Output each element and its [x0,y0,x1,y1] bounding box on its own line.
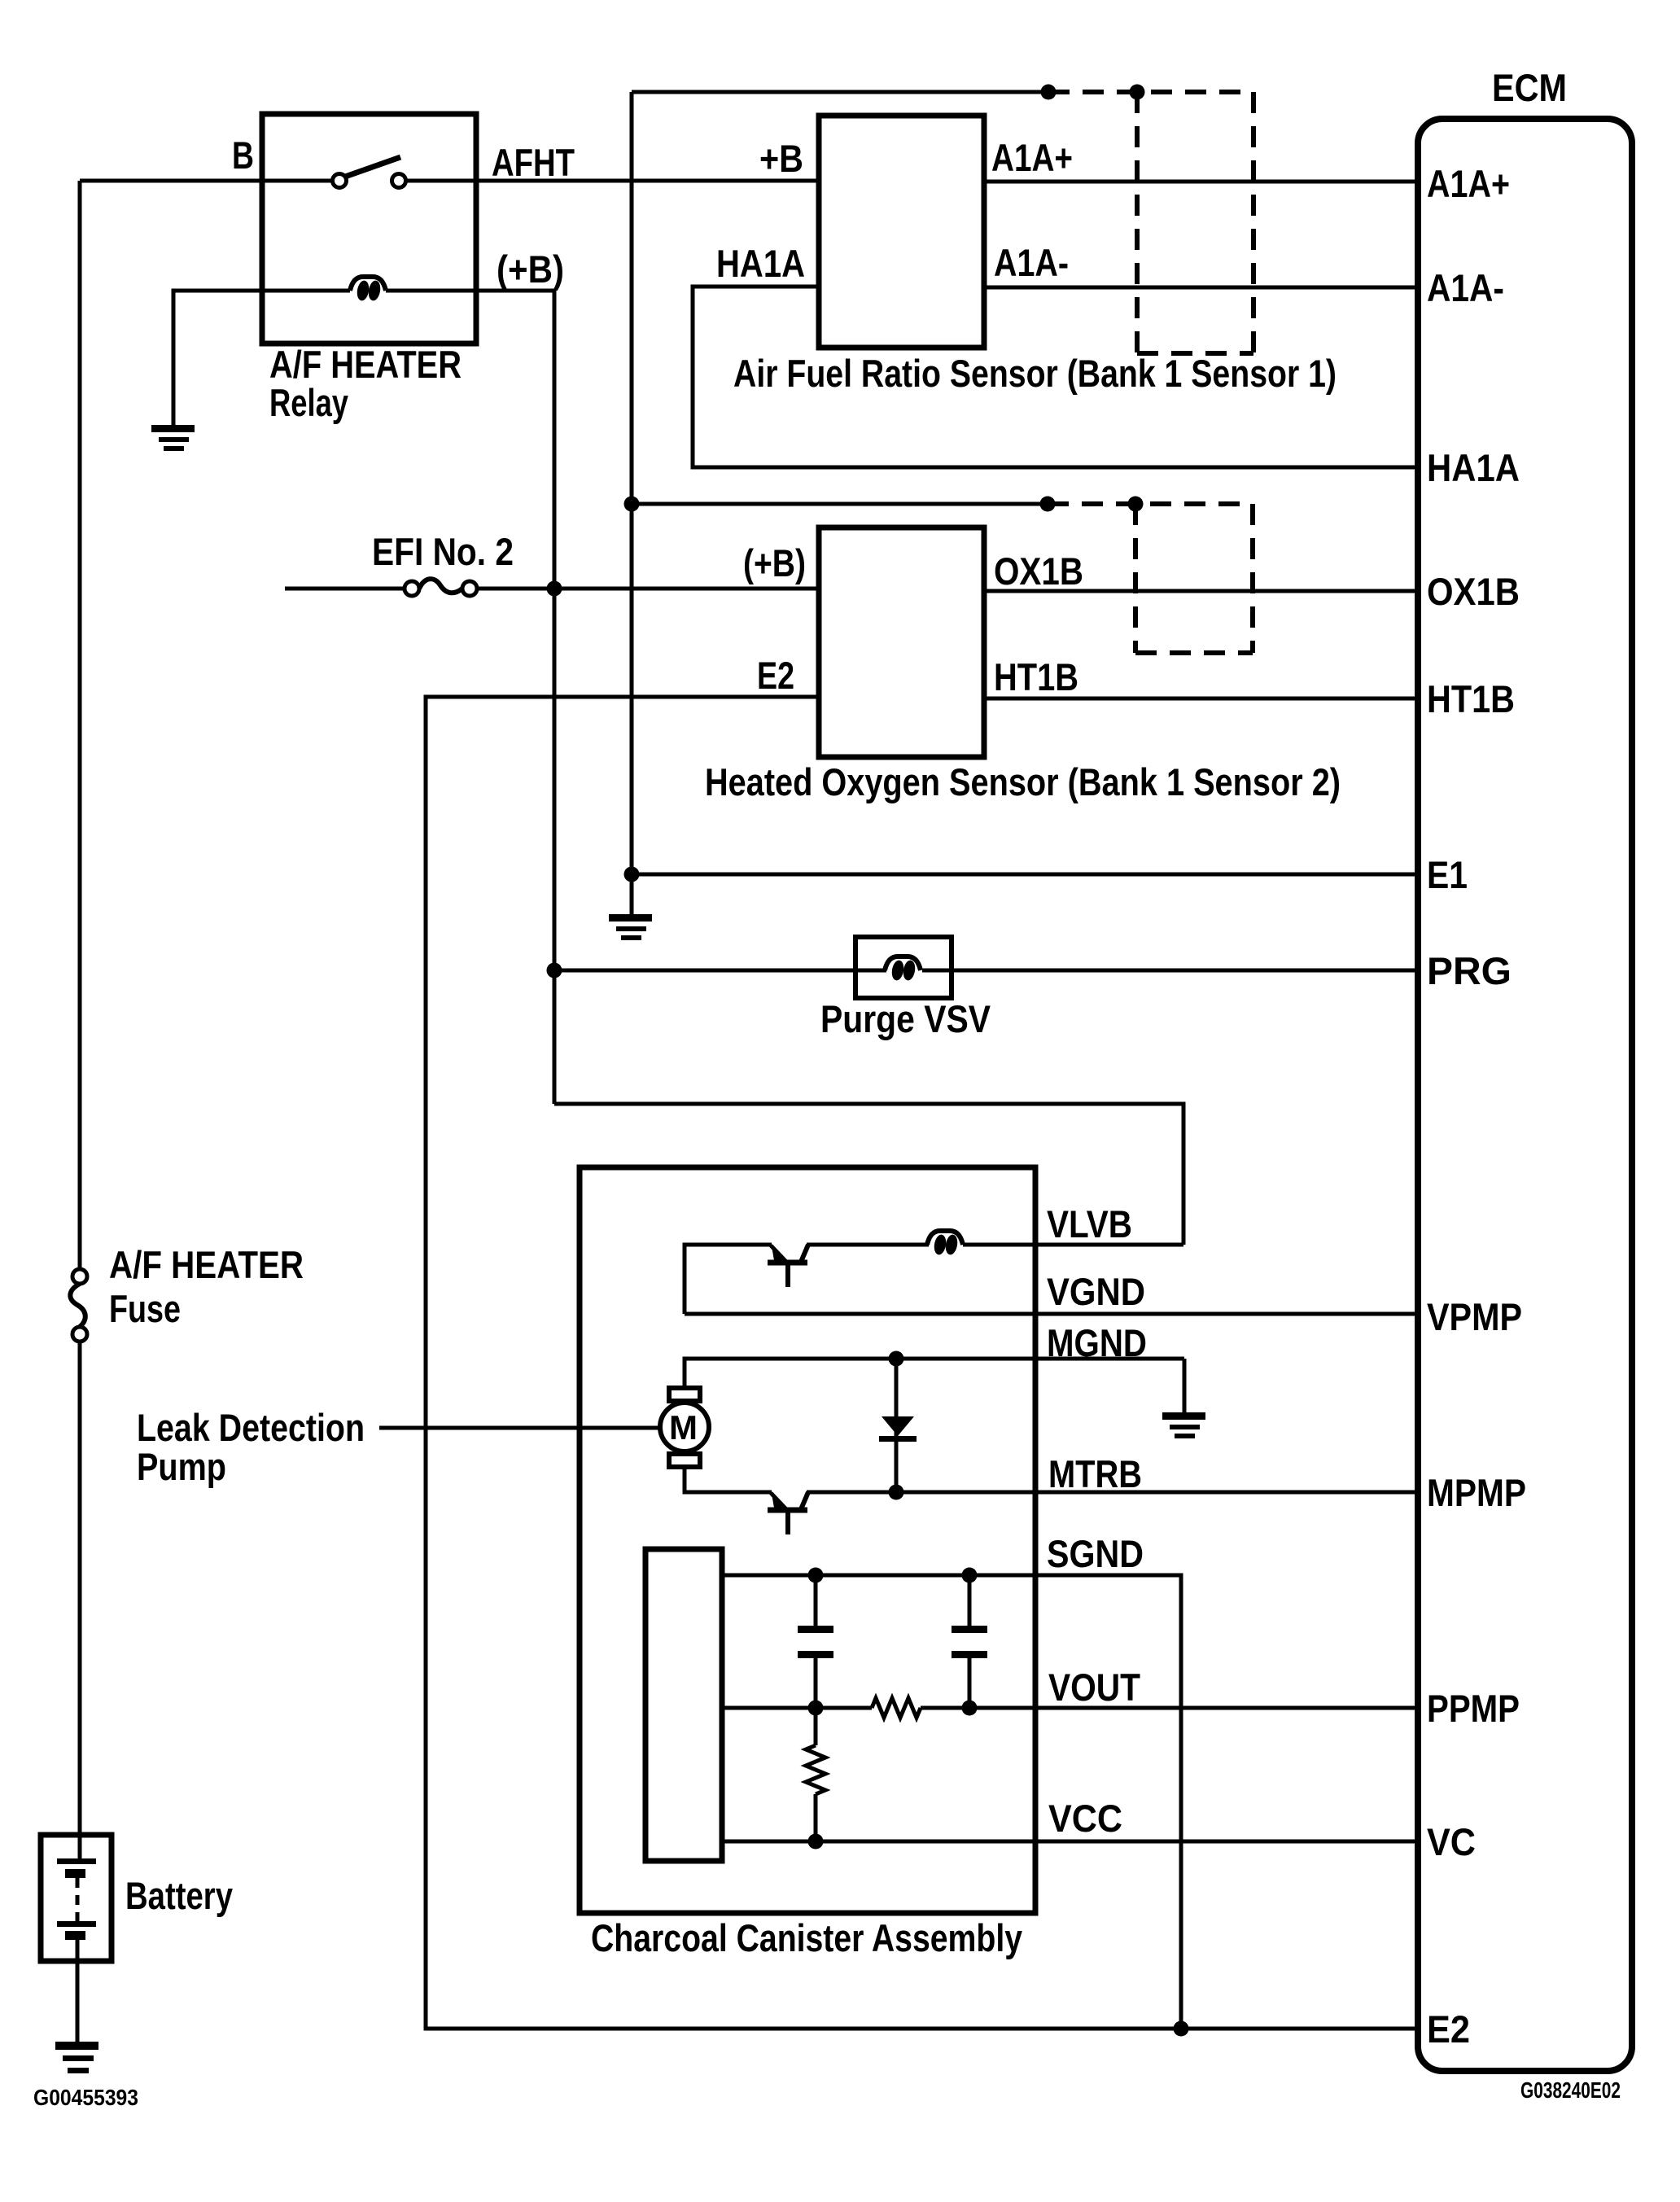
svg-text:HT1B: HT1B [994,655,1078,698]
svg-text:(+B): (+B) [743,541,806,584]
resistor R1 series [872,1698,921,1718]
svg-text:OX1B: OX1B [994,549,1083,593]
svg-text:AFHT: AFHT [492,141,575,184]
wire A1A+ to ECM [984,180,1420,184]
junction dot [808,1834,824,1850]
svg-text:HA1A: HA1A [1427,446,1520,489]
relay switch contacts [262,157,476,188]
wire VOUT [722,1706,872,1710]
svg-text:Purge VSV: Purge VSV [820,997,991,1040]
svg-text:Heated Oxygen Sensor (Bank 1 S: Heated Oxygen Sensor (Bank 1 Sensor 2) [705,760,1341,803]
wire HA1A to ECM [693,287,1420,467]
sensor pressure sensor block [645,1549,722,1861]
shield box sensor 1 (dashed) [1137,92,1253,353]
svg-text:Relay: Relay [269,381,348,424]
svg-text:Fuse: Fuse [109,1287,181,1330]
relay A/F HEATER Relay box [262,114,476,344]
junction dot [1128,497,1144,512]
junction dot PRG tee [547,963,562,978]
ECM pin labels [1427,162,1526,2051]
wire shield ground rail [630,92,634,916]
wire coil to transistor [807,1243,929,1247]
svg-text:Leak Detection: Leak Detection [137,1406,365,1449]
wire B from battery rail to relay [80,179,262,183]
wire shield 2 dashed [1048,501,1253,506]
wire HT1B to ECM [984,697,1420,701]
svg-text:Pump: Pump [137,1445,226,1488]
svg-text:OX1B: OX1B [1427,570,1520,613]
svg-text:PRG: PRG [1427,949,1512,992]
junction dot [962,1568,978,1583]
wire relay coil to ground [173,291,262,427]
wire +B vertical rail [553,291,557,1104]
relay coil [262,277,476,302]
wire MGND down to ground [1183,1359,1187,1414]
svg-text:(+B): (+B) [497,247,564,291]
junction dot shield rail [624,497,640,512]
shield box sensor 2 (dashed) [1135,504,1253,653]
svg-text:PPMP: PPMP [1427,1687,1520,1730]
diode D1 flyback [879,1359,917,1492]
wire transistor to VGND loop [685,1245,772,1314]
svg-text:EFI No. 2: EFI No. 2 [372,530,514,573]
wire MTRB motor lead [685,1467,772,1492]
svg-text:A1A+: A1A+ [991,136,1073,179]
junction dot E2/SGND [1174,2021,1189,2037]
motor M leak detection pump motor [660,1388,709,1467]
wire shield 1 top [632,90,1048,94]
svg-text:MTRB: MTRB [1048,1452,1142,1495]
svg-text:Charcoal Canister Assembly: Charcoal Canister Assembly [591,1916,1022,1959]
wire fuse to sensor 2 [477,587,819,591]
transistor Q1 vent valve driver [768,1245,808,1287]
wire AFHT from relay to sensor [476,179,819,183]
junction dot diode bottom [889,1485,904,1500]
svg-text:SGND: SGND [1047,1532,1144,1575]
wire leak detection pump pointer [379,1426,662,1430]
svg-text:E2: E2 [1427,2007,1470,2051]
wire EFI No. 2 feed [285,587,405,591]
svg-text:B: B [232,134,254,177]
svg-text:ECM: ECM [1492,66,1567,109]
wire (+B) from relay coil [476,289,554,293]
svg-text:A/F HEATER: A/F HEATER [109,1243,304,1286]
wire OX1B to ECM [984,589,1420,593]
svg-text:M: M [669,1408,698,1447]
junction dot [962,1701,978,1716]
wire VOUT to ECM PPMP [921,1706,1420,1710]
svg-text:VPMP: VPMP [1427,1295,1522,1338]
wire +B feed to VLVB [554,1104,1183,1245]
ground MGND ground [1162,1412,1205,1438]
svg-text:HT1B: HT1B [1427,677,1515,720]
ground relay coil ground [151,425,195,451]
svg-text:MGND: MGND [1047,1321,1147,1364]
svg-text:A1A-: A1A- [994,241,1069,284]
wire E2 long run to ECM [426,697,1420,2029]
coil vent valve [927,1231,963,1256]
junction dot [1130,85,1145,100]
svg-text:VLVB: VLVB [1047,1202,1132,1245]
svg-text:+B: +B [759,137,803,180]
junction dot [1041,85,1057,100]
Leak Detection Pump label [137,1406,365,1488]
sensor U1 Air Fuel Ratio Sensor box [819,116,984,348]
wire MTRB to ECM MPMP [807,1491,1420,1495]
transistor Q2 pump motor driver [768,1492,808,1534]
svg-text:A/F HEATER: A/F HEATER [269,343,462,386]
ECM box [1418,119,1632,2071]
valve Purge VSV box [855,937,952,998]
A/F HEATER Relay label [269,343,462,424]
svg-text:A1A-: A1A- [1427,266,1504,309]
capacitor C1 [798,1575,833,1708]
wire shield 1 dashed [1048,90,1253,94]
fuse EFI No. 2 [405,579,477,596]
svg-text:G038240E02: G038240E02 [1520,2077,1621,2103]
svg-text:MPMP: MPMP [1427,1471,1526,1514]
junction dot diode top [889,1351,904,1367]
sensor U2 Heated Oxygen Sensor box [819,528,984,757]
resistor R2 shunt [806,1708,825,1841]
svg-text:VOUT: VOUT [1048,1666,1140,1709]
wire shield 2 top [632,502,1048,506]
A/F HEATER Fuse label [109,1243,304,1330]
fuse A/F HEATER Fuse [70,1269,87,1342]
battery [41,1835,112,2044]
junction dot [808,1568,824,1583]
capacitor C2 [952,1575,987,1708]
junction dot [547,581,562,597]
wire E1 to ECM [632,873,1420,877]
wire VCC to ECM VC [722,1840,1420,1844]
coil Purge VSV [885,957,921,982]
svg-text:A1A+: A1A+ [1427,162,1510,205]
wire PRG to ECM [554,969,886,973]
wire SGND [722,1575,1181,2029]
svg-text:VCC: VCC [1048,1797,1122,1840]
junction dot E1 tee [624,867,640,882]
svg-text:E2: E2 [757,654,794,697]
junction dot [808,1701,824,1716]
svg-text:E1: E1 [1427,853,1468,896]
svg-text:G00455393: G00455393 [33,2085,138,2110]
ground battery ground [55,2042,98,2073]
wire VGND to ECM VPMP [685,1312,1420,1316]
ground shield rail ground [609,914,652,940]
wire A1A- to ECM [984,286,1420,290]
wire battery rail upper segment [78,181,82,1269]
svg-text:HA1A: HA1A [716,242,805,285]
wire VLVB [963,1243,1183,1247]
junction dot [1040,497,1056,512]
canister Charcoal Canister Assembly box [580,1167,1035,1913]
svg-text:Air Fuel Ratio Sensor (Bank 1: Air Fuel Ratio Sensor (Bank 1 Sensor 1) [733,352,1337,395]
wire MGND [685,1359,1184,1389]
svg-text:VC: VC [1427,1820,1476,1863]
svg-text:Battery: Battery [125,1874,233,1917]
svg-text:VGND: VGND [1047,1270,1145,1313]
wire battery rail lower segment [78,1342,82,1836]
